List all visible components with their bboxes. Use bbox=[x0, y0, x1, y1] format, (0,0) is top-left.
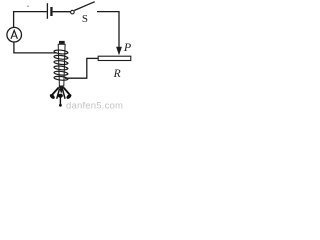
wire rheostat to step corner bbox=[87, 57, 98, 59]
attracted nail right head blob bbox=[66, 93, 73, 100]
slider arrow head pointing down bbox=[116, 47, 122, 55]
attracted pin center-right bbox=[63, 90, 65, 99]
wire left vertical lower (ammeter to bottom-left corner) bbox=[13, 42, 15, 53]
electromagnet screw tip fill bbox=[59, 86, 64, 94]
rheostat R body bbox=[98, 56, 131, 60]
wire top-right horizontal bbox=[97, 11, 120, 13]
ammeter A1 circle bbox=[7, 27, 22, 42]
wire top-left horizontal (battery negative to left corner) bbox=[13, 11, 47, 13]
battery cell long plate bbox=[46, 3, 48, 19]
cluster center blob bbox=[58, 94, 63, 98]
wire step vertical bbox=[86, 58, 88, 78]
attracted nail left head blob bbox=[49, 93, 56, 100]
svg-text:S: S bbox=[82, 13, 88, 25]
electromagnet screw body outline bbox=[58, 44, 65, 86]
ammeter A1 letter A bbox=[11, 30, 17, 38]
attracted pin center-left bbox=[57, 90, 59, 99]
coil turn 6 bbox=[54, 76, 68, 81]
speck bbox=[27, 6, 28, 7]
coil turn 5 bbox=[54, 71, 68, 76]
coil turn 2 bbox=[54, 55, 68, 60]
svg-text:P: P bbox=[123, 40, 132, 54]
attracted nail left (shaft) bbox=[52, 88, 59, 96]
wire coil to step (bottom) bbox=[65, 77, 87, 79]
wire battery to switch bbox=[53, 11, 71, 13]
coil turn 1 bbox=[54, 49, 68, 54]
svg-text:danfen5.com: danfen5.com bbox=[66, 101, 123, 112]
electromagnet screw head cap bbox=[59, 41, 65, 44]
coil turn 3 bbox=[54, 60, 68, 65]
wire bottom-left horizontal (corner to coil) bbox=[13, 52, 56, 54]
wire right vertical down to slider bbox=[118, 12, 120, 48]
svg-text:R: R bbox=[113, 68, 121, 80]
switch S blade (open) bbox=[74, 2, 95, 11]
attracted nail right (shaft) bbox=[64, 88, 71, 96]
battery cell short thick plate bbox=[50, 7, 52, 16]
switch S pivot circle bbox=[71, 10, 75, 14]
hanging pin head bbox=[59, 104, 62, 107]
coil turn 4 bbox=[54, 65, 68, 70]
wire left vertical upper (corner down to ammeter) bbox=[13, 11, 15, 28]
hanging pin vertical bbox=[59, 94, 61, 105]
